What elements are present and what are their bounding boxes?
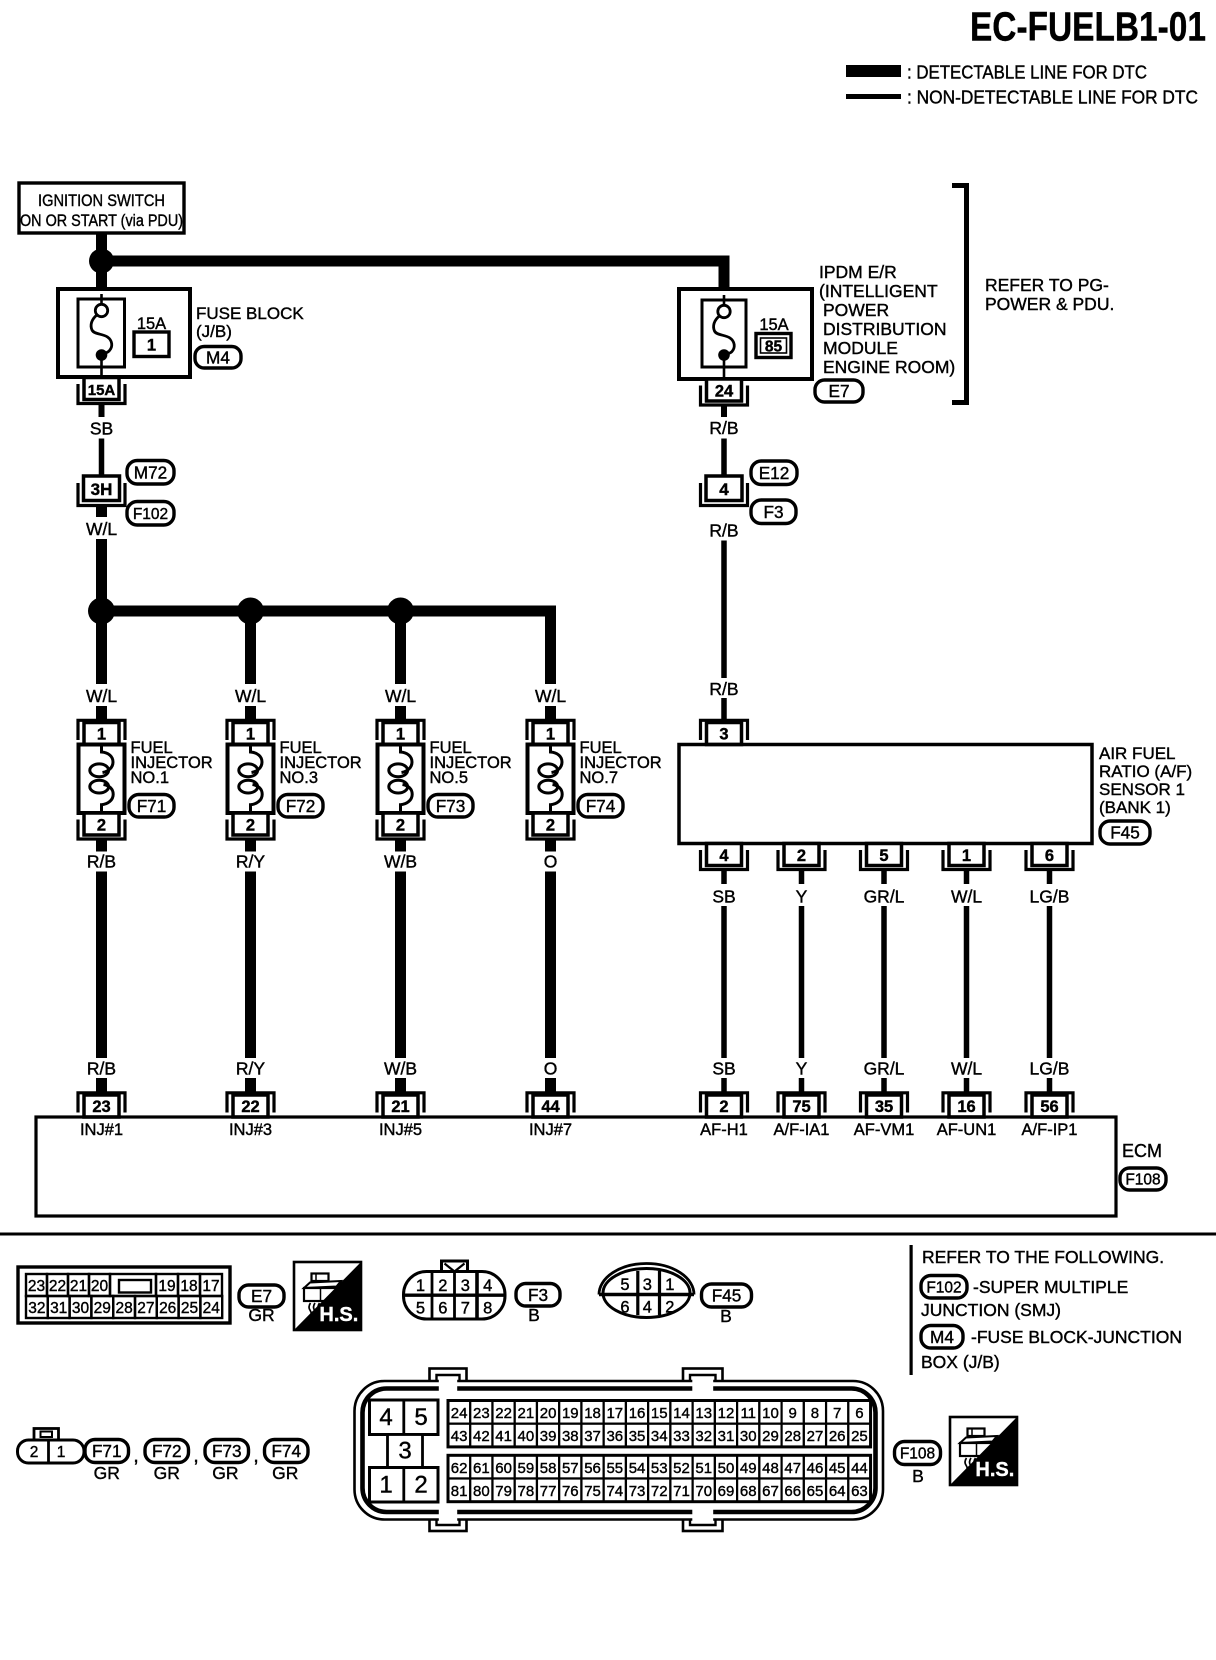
svg-text:38: 38 <box>562 1428 579 1445</box>
connector E7 oval bottom <box>239 1285 284 1307</box>
svg-text:W/L: W/L <box>86 519 117 539</box>
svg-text:6: 6 <box>438 1300 447 1318</box>
svg-text:1: 1 <box>416 1277 425 1295</box>
svg-text:21: 21 <box>391 1098 409 1116</box>
svg-text:8: 8 <box>811 1405 819 1422</box>
svg-text:2: 2 <box>438 1277 447 1295</box>
node junction C <box>237 598 264 625</box>
svg-text:23: 23 <box>92 1098 110 1116</box>
fuel injector NO.3 body F72 <box>228 745 274 814</box>
svg-text:24: 24 <box>203 1300 221 1317</box>
ECM pin 56 <box>1032 1095 1067 1117</box>
svg-text:Y: Y <box>796 887 808 907</box>
wire stub below pin 24 <box>721 405 727 417</box>
svg-text:: NON-DETECTABLE LINE FOR DTC: : NON-DETECTABLE LINE FOR DTC <box>907 87 1198 108</box>
wire GR/L down to ECM <box>881 906 887 1058</box>
svg-text:E12: E12 <box>759 463 790 483</box>
svg-text:23: 23 <box>28 1278 45 1295</box>
svg-text:2: 2 <box>246 817 255 835</box>
ECM box <box>36 1117 1116 1216</box>
svg-text:27: 27 <box>137 1300 154 1317</box>
wire stub below injector 1 <box>96 839 107 852</box>
svg-text:66: 66 <box>784 1483 801 1500</box>
svg-text:72: 72 <box>651 1483 668 1500</box>
wire stub below injector 5 <box>395 839 406 852</box>
svg-text:29: 29 <box>94 1300 111 1317</box>
svg-text:2: 2 <box>665 1299 674 1317</box>
svg-text:32: 32 <box>695 1428 712 1445</box>
IPDM E/R box E7 <box>679 289 812 379</box>
svg-text:POWER & PDU.: POWER & PDU. <box>985 294 1114 314</box>
svg-text:SB: SB <box>90 419 113 439</box>
svg-text:F102: F102 <box>926 1279 961 1296</box>
svg-text:15A: 15A <box>88 382 116 399</box>
svg-text:21: 21 <box>517 1405 534 1422</box>
connector F73 oval <box>428 795 473 818</box>
svg-text:43: 43 <box>451 1428 468 1445</box>
svg-text:H.S.: H.S. <box>319 1304 358 1326</box>
svg-text:E7: E7 <box>828 381 849 401</box>
ECM pin 22 <box>233 1095 268 1117</box>
svg-text:EC-FUELB1-01: EC-FUELB1-01 <box>970 4 1206 50</box>
svg-text:F108: F108 <box>1125 1172 1160 1189</box>
wire drop to IPDM <box>719 256 730 290</box>
fuse F1 symbol <box>100 294 103 304</box>
svg-text:29: 29 <box>762 1428 779 1445</box>
wire stub below injector 3 <box>245 839 256 852</box>
svg-text:M4: M4 <box>930 1327 954 1347</box>
svg-text:F72: F72 <box>286 796 316 816</box>
svg-text:51: 51 <box>695 1460 712 1477</box>
svg-text:10: 10 <box>762 1405 779 1422</box>
svg-text:R/B: R/B <box>87 1059 116 1079</box>
wire stub below sensor pin 1 <box>964 870 970 885</box>
svg-text:80: 80 <box>473 1483 490 1500</box>
wire node to fuse block <box>96 272 107 290</box>
svg-text:2: 2 <box>30 1444 39 1461</box>
connector 4 SMJ <box>706 476 742 501</box>
svg-text:SB: SB <box>712 1059 735 1079</box>
svg-text:30: 30 <box>740 1428 757 1445</box>
pin 15A fuse block <box>84 378 119 400</box>
ECM pin 2 <box>707 1095 742 1117</box>
svg-text:W/L: W/L <box>385 686 416 706</box>
connector F3 oval <box>751 500 796 524</box>
svg-text:M72: M72 <box>134 462 167 482</box>
svg-text:35: 35 <box>629 1428 646 1445</box>
connector M72 oval <box>127 461 174 485</box>
svg-text:75: 75 <box>792 1098 810 1116</box>
wire drop injector 3 <box>245 617 256 684</box>
svg-text:GR/L: GR/L <box>864 1059 905 1079</box>
fuel injector NO.1 pin 2 <box>84 813 119 835</box>
ECM pin 21 <box>383 1095 418 1117</box>
wire W/L stub injector 7 <box>545 706 556 724</box>
svg-text:22: 22 <box>495 1405 512 1422</box>
wire W/L stub injector 3 <box>245 706 256 724</box>
svg-text:SENSOR 1: SENSOR 1 <box>1099 780 1185 799</box>
svg-text:,: , <box>133 1445 139 1467</box>
connector E7 oval <box>815 380 863 402</box>
fuel injector NO.3 pin 2 <box>233 813 268 835</box>
svg-text:64: 64 <box>829 1483 846 1500</box>
svg-text:6: 6 <box>855 1405 863 1422</box>
svg-text:20: 20 <box>540 1405 557 1422</box>
wire stub into ECM pin 22 <box>245 1078 256 1097</box>
svg-text:FUSE BLOCK: FUSE BLOCK <box>196 304 304 323</box>
svg-text:AIR FUEL: AIR FUEL <box>1099 744 1176 763</box>
separator line <box>0 1233 1216 1236</box>
svg-text:1: 1 <box>97 726 106 744</box>
svg-text:R/B: R/B <box>709 418 738 438</box>
svg-text:F73: F73 <box>436 796 466 816</box>
svg-text:8: 8 <box>483 1300 492 1318</box>
wire Y down to ECM <box>799 906 805 1058</box>
wire drop injector 5 <box>395 617 406 684</box>
svg-text:AF-UN1: AF-UN1 <box>937 1121 997 1139</box>
svg-text:1: 1 <box>962 847 971 865</box>
sensor pin 6 <box>1032 844 1067 866</box>
svg-text:3: 3 <box>398 1438 411 1465</box>
wire stub below sensor pin 5 <box>881 870 887 885</box>
svg-text:LG/B: LG/B <box>1030 887 1070 907</box>
svg-text:56: 56 <box>584 1460 601 1477</box>
connector view injector 2-1 <box>34 1429 59 1441</box>
svg-text:F3: F3 <box>528 1285 548 1305</box>
air fuel ratio sensor box <box>679 745 1092 844</box>
svg-text:31: 31 <box>718 1428 735 1445</box>
wire stub below sensor pin 2 <box>799 870 805 885</box>
svg-text:B: B <box>528 1305 540 1325</box>
svg-text:52: 52 <box>673 1460 690 1477</box>
svg-text:R/B: R/B <box>709 521 738 541</box>
svg-text:12: 12 <box>718 1405 735 1422</box>
svg-text:R/Y: R/Y <box>236 852 266 872</box>
svg-text:77: 77 <box>540 1483 557 1500</box>
wire stub into ECM pin 2 <box>721 1078 727 1097</box>
sensor pin 3 <box>707 723 742 745</box>
svg-text:37: 37 <box>584 1428 601 1445</box>
svg-text:R/B: R/B <box>87 852 116 872</box>
svg-text:13: 13 <box>695 1405 712 1422</box>
connector F3 oval bottom <box>516 1284 560 1307</box>
svg-text:6: 6 <box>620 1299 629 1317</box>
svg-text:1: 1 <box>396 726 405 744</box>
fuel injector NO.5 body F73 <box>378 745 424 814</box>
svg-text:1: 1 <box>546 726 555 744</box>
svg-text:R/B: R/B <box>709 679 738 699</box>
svg-text:INJ#1: INJ#1 <box>80 1121 123 1139</box>
wire stub into ECM pin 44 <box>545 1078 556 1097</box>
svg-text:IPDM E/R: IPDM E/R <box>819 262 897 282</box>
svg-text:55: 55 <box>606 1460 623 1477</box>
wire stub into ECM pin 23 <box>96 1078 107 1097</box>
svg-text:17: 17 <box>202 1278 219 1295</box>
svg-text:28: 28 <box>784 1428 801 1445</box>
svg-text:BOX (J/B): BOX (J/B) <box>921 1352 1000 1372</box>
wire stub below 15A <box>99 404 105 418</box>
svg-text:W/L: W/L <box>951 887 982 907</box>
svg-text:22: 22 <box>49 1278 66 1295</box>
svg-text:49: 49 <box>740 1460 757 1477</box>
svg-text:GR: GR <box>248 1305 274 1325</box>
sensor pin 4 <box>707 844 742 866</box>
connector F102 oval <box>127 502 174 526</box>
fuse 85 symbol <box>723 295 726 305</box>
wire stub below sensor pin 4 <box>721 870 727 885</box>
ECM connector pin grid lower <box>448 1455 470 1478</box>
wire SB down to ECM <box>721 906 727 1058</box>
svg-text:30: 30 <box>72 1300 90 1317</box>
wire R/B down 1 <box>721 439 727 477</box>
ECM pin 35 <box>867 1095 902 1117</box>
fuel injector NO.1 pin 1 <box>84 723 119 745</box>
svg-text:(INTELLIGENT: (INTELLIGENT <box>819 281 938 301</box>
connector F102 oval refer <box>921 1276 967 1299</box>
svg-text:F74: F74 <box>271 1441 301 1461</box>
svg-text:3H: 3H <box>91 480 113 499</box>
wire W/L stub injector 1 <box>96 706 107 724</box>
fuel injector NO.5 pin 1 <box>383 723 418 745</box>
wire stub below 3H <box>96 506 107 518</box>
svg-text:4: 4 <box>719 847 729 865</box>
svg-text:1: 1 <box>57 1444 66 1461</box>
wire stub into ECM pin 56 <box>1047 1078 1053 1097</box>
svg-text:18: 18 <box>180 1278 197 1295</box>
svg-text:15A: 15A <box>137 315 166 333</box>
svg-text:NO.7: NO.7 <box>580 769 619 787</box>
svg-text:GR: GR <box>212 1463 238 1483</box>
svg-text:DISTRIBUTION: DISTRIBUTION <box>823 319 946 339</box>
svg-text:F3: F3 <box>763 502 783 522</box>
fuse number 85 box <box>756 334 791 358</box>
svg-text:ON OR START (via PDU): ON OR START (via PDU) <box>20 212 183 230</box>
connector F108 oval <box>1120 1168 1166 1190</box>
svg-text:25: 25 <box>851 1428 868 1445</box>
svg-text:76: 76 <box>562 1483 579 1500</box>
svg-text:2: 2 <box>546 817 555 835</box>
wire LG/B down to ECM <box>1047 906 1053 1058</box>
ECM pin 16 <box>949 1095 984 1117</box>
svg-text:(BANK 1): (BANK 1) <box>1099 798 1171 817</box>
svg-text:W/L: W/L <box>86 686 117 706</box>
svg-text:63: 63 <box>851 1483 868 1500</box>
svg-text:1: 1 <box>147 337 156 355</box>
svg-text:53: 53 <box>651 1460 668 1477</box>
node junction D <box>387 598 414 625</box>
H.S. icon left <box>312 1274 329 1282</box>
svg-text:22: 22 <box>241 1098 259 1116</box>
svg-text:AF-H1: AF-H1 <box>700 1121 748 1139</box>
svg-text:31: 31 <box>50 1300 67 1317</box>
connector F45 oval bottom <box>702 1284 752 1307</box>
svg-text:74: 74 <box>606 1483 623 1500</box>
connector F71 oval bottom <box>85 1440 129 1463</box>
svg-text:5: 5 <box>620 1276 629 1294</box>
svg-text:A/F-IA1: A/F-IA1 <box>774 1121 830 1139</box>
svg-text:24: 24 <box>451 1405 468 1422</box>
connector M4 oval <box>195 347 241 369</box>
svg-text:F74: F74 <box>586 796 616 816</box>
svg-text:26: 26 <box>829 1428 846 1445</box>
wire stub below injector 7 <box>545 839 556 852</box>
wire R/B down 2 <box>721 541 727 679</box>
wire W/L stub injector 5 <box>395 706 406 724</box>
ECM pin 75 <box>784 1095 819 1117</box>
svg-text:40: 40 <box>517 1428 534 1445</box>
svg-text:2: 2 <box>396 817 405 835</box>
connector E12 oval <box>751 461 797 485</box>
svg-text:78: 78 <box>517 1483 534 1500</box>
fuse number 1 box <box>134 332 169 357</box>
svg-text:65: 65 <box>807 1483 824 1500</box>
svg-text:B: B <box>720 1306 732 1326</box>
svg-text:6: 6 <box>1045 847 1054 865</box>
H.S. icon right <box>968 1429 985 1437</box>
wire ignition to node <box>96 233 107 250</box>
svg-text:4: 4 <box>719 480 729 499</box>
fuel injector NO.7 body F74 <box>528 745 574 814</box>
svg-text:28: 28 <box>115 1300 132 1317</box>
svg-text:4: 4 <box>483 1277 492 1295</box>
wire W/L bus <box>102 606 557 617</box>
svg-text:81: 81 <box>451 1483 468 1500</box>
connector F74 oval <box>578 795 623 818</box>
svg-text:18: 18 <box>584 1405 601 1422</box>
svg-text:GR/L: GR/L <box>864 887 905 907</box>
wire SB down <box>99 439 105 477</box>
pin 24 IPDM <box>707 379 742 401</box>
svg-text:B: B <box>912 1466 924 1486</box>
svg-text:46: 46 <box>807 1460 824 1477</box>
svg-text:JUNCTION (SMJ): JUNCTION (SMJ) <box>921 1300 1061 1320</box>
wire stub above pin 3 <box>721 698 727 724</box>
svg-text:W/B: W/B <box>384 1059 417 1079</box>
svg-text:70: 70 <box>695 1483 712 1500</box>
wire stub below sensor pin 6 <box>1047 870 1053 885</box>
svg-text:21: 21 <box>70 1278 87 1295</box>
svg-text:GR: GR <box>272 1463 298 1483</box>
connector F72 oval bottom <box>145 1440 189 1463</box>
svg-text:54: 54 <box>629 1460 646 1477</box>
svg-text:7: 7 <box>833 1405 841 1422</box>
connector F73 oval bottom <box>205 1440 249 1463</box>
svg-text:48: 48 <box>762 1460 779 1477</box>
svg-text:1: 1 <box>379 1472 392 1499</box>
svg-text:,: , <box>193 1445 199 1467</box>
svg-text:20: 20 <box>91 1278 109 1295</box>
svg-text:1: 1 <box>246 726 255 744</box>
svg-text:LG/B: LG/B <box>1030 1059 1070 1079</box>
wire O down to ECM <box>545 872 556 1059</box>
svg-text:73: 73 <box>629 1483 646 1500</box>
wire W/L down to bus <box>96 539 107 605</box>
svg-text:F102: F102 <box>133 506 168 523</box>
svg-text:61: 61 <box>473 1460 490 1477</box>
fuel injector NO.7 pin 1 <box>533 723 568 745</box>
svg-text:1: 1 <box>665 1276 674 1294</box>
ECM pin 44 <box>533 1095 568 1117</box>
svg-text:36: 36 <box>606 1428 623 1445</box>
svg-text:19: 19 <box>158 1278 175 1295</box>
svg-text:5: 5 <box>414 1404 427 1431</box>
svg-text:NO.3: NO.3 <box>280 769 319 787</box>
fuel injector NO.7 pin 2 <box>533 813 568 835</box>
svg-text:: DETECTABLE LINE FOR DTC: : DETECTABLE LINE FOR DTC <box>907 62 1147 83</box>
svg-text:(J/B): (J/B) <box>196 322 232 341</box>
connector view F45 <box>599 1264 694 1295</box>
svg-text:INJ#7: INJ#7 <box>529 1121 572 1139</box>
svg-text:A/F-IP1: A/F-IP1 <box>1022 1121 1078 1139</box>
wire drop injector 7 <box>545 606 556 685</box>
connector F45 oval <box>1100 821 1150 844</box>
svg-text:3: 3 <box>643 1276 652 1294</box>
svg-text:ENGINE ROOM): ENGINE ROOM) <box>823 357 955 377</box>
svg-text:REFER TO PG-: REFER TO PG- <box>985 275 1109 295</box>
connector F71 oval <box>129 795 174 818</box>
svg-text:F45: F45 <box>712 1286 742 1306</box>
ECM pin 23 <box>84 1095 119 1117</box>
wire W/L down to ECM <box>964 906 970 1058</box>
svg-text:45: 45 <box>829 1460 846 1477</box>
svg-text:5: 5 <box>416 1300 425 1318</box>
svg-text:34: 34 <box>651 1428 668 1445</box>
fuel injector NO.5 pin 2 <box>383 813 418 835</box>
sensor pin 2 <box>784 844 819 866</box>
svg-text:4: 4 <box>379 1404 392 1431</box>
svg-text:15: 15 <box>651 1405 668 1422</box>
connector F74 oval bottom <box>265 1440 309 1463</box>
svg-text:NO.1: NO.1 <box>131 769 170 787</box>
svg-text:26: 26 <box>159 1300 176 1317</box>
wire stub into ECM pin 75 <box>799 1078 805 1097</box>
svg-text:42: 42 <box>473 1428 490 1445</box>
wire stub into ECM pin 21 <box>395 1078 406 1097</box>
svg-text:W/L: W/L <box>951 1059 982 1079</box>
svg-text:60: 60 <box>495 1460 512 1477</box>
svg-text:E7: E7 <box>251 1286 272 1306</box>
svg-text:REFER TO THE FOLLOWING.: REFER TO THE FOLLOWING. <box>922 1247 1164 1267</box>
svg-text:58: 58 <box>540 1460 557 1477</box>
svg-text:47: 47 <box>784 1460 801 1477</box>
ECM connector view shell <box>430 1369 467 1389</box>
svg-text:62: 62 <box>451 1460 468 1477</box>
svg-text:MODULE: MODULE <box>823 338 898 358</box>
svg-text:INJ#5: INJ#5 <box>379 1121 422 1139</box>
svg-text:23: 23 <box>473 1405 490 1422</box>
svg-text:57: 57 <box>562 1460 579 1477</box>
svg-text:67: 67 <box>762 1483 779 1500</box>
svg-text:GR: GR <box>154 1463 180 1483</box>
connector F108 oval bottom <box>895 1442 941 1465</box>
svg-text:AF-VM1: AF-VM1 <box>854 1121 915 1139</box>
svg-text:50: 50 <box>718 1460 735 1477</box>
svg-text:3: 3 <box>719 726 728 744</box>
wire drop injector 1 <box>96 617 107 684</box>
svg-text:2: 2 <box>414 1472 427 1499</box>
svg-text:19: 19 <box>562 1405 579 1422</box>
ECM connector pin grid upper <box>448 1401 470 1424</box>
svg-text:SB: SB <box>712 887 735 907</box>
connector M4 oval refer <box>921 1326 963 1349</box>
svg-text:M4: M4 <box>206 347 230 367</box>
wire stub into ECM pin 35 <box>881 1078 887 1097</box>
svg-text:O: O <box>544 852 558 872</box>
svg-text:41: 41 <box>495 1428 512 1445</box>
wire bus ignition to IPDM <box>102 256 730 267</box>
wire R/Y down to ECM <box>245 872 256 1059</box>
connector view F3 <box>442 1261 468 1273</box>
